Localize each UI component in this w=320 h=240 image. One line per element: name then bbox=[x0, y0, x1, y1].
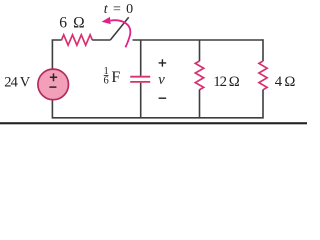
label + v - of capacitor voltage bbox=[158, 59, 166, 98]
wire: right branch upper bbox=[262, 39, 264, 61]
wire: 12ohm branch upper bbox=[199, 40, 201, 62]
voltage source minus sign bbox=[49, 86, 56, 88]
switch blade bbox=[111, 17, 129, 40]
wire: capacitor branch upper bbox=[140, 40, 142, 76]
svg-text:24 V: 24 V bbox=[4, 75, 31, 91]
svg-text:6 Ω: 6 Ω bbox=[59, 14, 84, 31]
wire: left branch top segment and top-left corner bbox=[52, 40, 61, 70]
capacitor 1/6 F plates bbox=[130, 77, 150, 82]
resistor 6ohm zigzag bbox=[62, 35, 93, 45]
svg-text:6: 6 bbox=[103, 76, 108, 87]
svg-text:12 Ω: 12 Ω bbox=[213, 74, 240, 90]
svg-text:v: v bbox=[158, 72, 165, 88]
voltage source 24V circle bbox=[38, 69, 69, 100]
label 1/6 F bbox=[103, 66, 120, 86]
voltage source plus sign bbox=[50, 73, 57, 81]
wire: from resistor to switch pivot bbox=[92, 39, 110, 41]
svg-text:F: F bbox=[111, 69, 120, 86]
svg-text:4 Ω: 4 Ω bbox=[275, 74, 296, 90]
wire: switch right contact to top-right corner bbox=[133, 39, 264, 41]
resistor 12ohm zigzag bbox=[195, 61, 203, 90]
svg-text:t = 0: t = 0 bbox=[104, 2, 133, 17]
wire: 12ohm branch lower bbox=[199, 90, 201, 118]
resistor 4ohm zigzag bbox=[259, 61, 267, 90]
switch arc arrow bbox=[102, 17, 131, 47]
page rule at bottom bbox=[0, 122, 307, 124]
wire: right branch lower bbox=[52, 90, 263, 118]
wire: capacitor branch lower bbox=[140, 83, 142, 118]
